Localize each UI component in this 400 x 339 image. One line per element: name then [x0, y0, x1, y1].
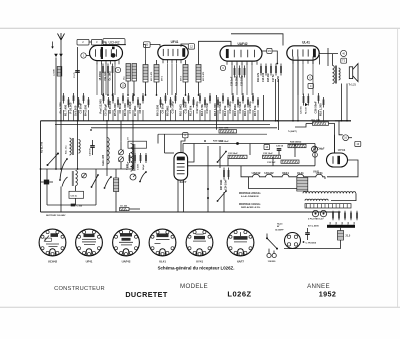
terminal 10	[120, 83, 125, 88]
wire	[46, 182, 48, 205]
capacitor C20	[277, 149, 282, 151]
capacitor C33	[305, 233, 310, 235]
svg-text:UY41: UY41	[338, 148, 346, 152]
svg-text:DEPLACER LE FIL: DEPLACER LE FIL	[241, 206, 261, 209]
wire	[219, 146, 221, 168]
wire	[237, 110, 239, 121]
junction	[145, 171, 147, 173]
capacitor C1	[75, 71, 80, 73]
wire HT bus	[41, 120, 352, 122]
wire tube pin drop	[167, 64, 169, 96]
junction	[276, 120, 278, 122]
wire	[120, 141, 122, 150]
wire	[227, 110, 229, 121]
resistor Sb	[63, 93, 65, 104]
wire	[340, 228, 342, 231]
resistor C17	[252, 93, 254, 104]
junction	[55, 168, 57, 170]
resistor R21	[219, 130, 237, 133]
wire tube pin drop	[105, 64, 107, 96]
wire heater feed	[241, 166, 249, 177]
ballast winding row 1	[303, 192, 356, 194]
resistor R18	[280, 64, 282, 76]
wire	[73, 110, 75, 121]
svg-text:St 5.000: St 5.000	[74, 105, 78, 116]
junction	[207, 197, 209, 199]
IF transformer T2 primary	[183, 65, 188, 83]
resistor R16b	[239, 66, 241, 78]
svg-text:Ld 500: Ld 500	[54, 69, 56, 76]
svg-text:R17 50k: R17 50k	[253, 105, 257, 116]
svg-text:R8 3.000: R8 3.000	[156, 104, 160, 116]
svg-text:R24 500kΩ: R24 500kΩ	[290, 141, 301, 144]
svg-text:C10 100p: C10 100p	[171, 101, 175, 113]
terminal box 10	[144, 42, 151, 48]
wire	[272, 51, 277, 64]
wire	[41, 181, 44, 183]
svg-text:SECTEUR 110-245V: SECTEUR 110-245V	[46, 214, 66, 217]
svg-text:Bob. Osc: Bob. Osc	[66, 144, 68, 154]
resistor C26	[318, 93, 320, 104]
wire tube pin drop	[297, 64, 299, 96]
wire	[103, 44, 126, 46]
wire	[127, 81, 129, 95]
svg-text:C15 100p: C15 100p	[228, 101, 232, 113]
wire	[177, 180, 179, 212]
wire	[108, 110, 110, 121]
wire	[183, 110, 185, 121]
wire	[257, 110, 259, 121]
resistor R ballast	[297, 178, 308, 192]
svg-text:R7 1MΩ: R7 1MΩ	[133, 105, 137, 116]
wire	[327, 48, 329, 66]
svg-text:Rk 150: Rk 150	[306, 106, 308, 114]
svg-text:C8 50nF: C8 50nF	[138, 102, 142, 113]
wire AF bottom	[183, 165, 315, 167]
svg-text:C 200: C 200	[77, 205, 83, 207]
wire	[217, 110, 219, 121]
tube UY41 rectifier	[327, 153, 348, 167]
ballast winding row 2	[305, 199, 328, 200]
svg-text:UAF42: UAF42	[122, 259, 131, 263]
junction	[107, 94, 109, 96]
wire	[278, 150, 280, 155]
wire to V3 grid	[199, 41, 232, 64]
svg-text:Ch. Ch6µF: Ch. Ch6µF	[313, 148, 325, 150]
svg-text:UY41: UY41	[196, 259, 203, 263]
coil L8 oscillator	[131, 144, 133, 172]
wire	[306, 123, 313, 125]
resistor R2	[112, 93, 114, 104]
wire AVC top	[143, 45, 146, 61]
svg-text:CH. 1nF: CH. 1nF	[104, 71, 107, 81]
svg-text:R1 61.700: R1 61.700	[41, 141, 44, 153]
resistor C10	[175, 93, 177, 104]
svg-text:R4 2.000: R4 2.000	[84, 104, 88, 116]
junction	[40, 168, 42, 170]
terminal box 13	[355, 141, 361, 146]
svg-text:R14 47k: R14 47k	[257, 72, 260, 82]
wire	[341, 84, 343, 121]
svg-text:CONSTRUCTEUR: CONSTRUCTEUR	[54, 286, 105, 292]
wire	[133, 81, 135, 95]
junction	[217, 200, 219, 202]
svg-text:Det. 100: Det. 100	[312, 118, 321, 121]
tube label box UCH42	[103, 39, 125, 45]
tube UF41	[158, 45, 188, 63]
resistor R14	[260, 64, 262, 76]
block C15	[69, 191, 84, 198]
tube UCH42	[90, 45, 123, 64]
junction	[112, 94, 114, 96]
terminal box 15	[267, 48, 272, 53]
oscillator coil L4	[70, 138, 72, 155]
terminal 16	[343, 135, 349, 141]
wire	[209, 110, 211, 121]
IF transformer T1 secondary	[154, 65, 159, 83]
svg-text:L026Z: L026Z	[227, 289, 251, 298]
wire tube pin drop	[246, 64, 248, 96]
svg-text:C6 50nF: C6 50nF	[118, 102, 122, 113]
wire	[86, 55, 89, 57]
svg-text:C7 100pF: C7 100pF	[128, 101, 132, 114]
junction arrow	[305, 103, 308, 106]
svg-text:UCH42: UCH42	[48, 259, 58, 263]
svg-text:M.F.1: M.F.1	[162, 75, 164, 81]
wire	[334, 135, 336, 153]
wire	[129, 208, 140, 210]
tube socket view UCH42	[39, 229, 66, 256]
wire	[185, 82, 187, 95]
resistor R8	[160, 97, 162, 108]
svg-text:C24 10nF: C24 10nF	[225, 179, 228, 190]
svg-text:M.F.1 472: M.F.1 472	[150, 71, 153, 81]
junction	[185, 94, 187, 96]
svg-text:Tr 1,21: Tr 1,21	[349, 85, 357, 87]
junction	[303, 241, 305, 243]
wire tube pin drop	[302, 64, 304, 96]
resistor R22	[313, 122, 329, 125]
wire	[216, 95, 218, 130]
wire	[47, 204, 96, 206]
svg-text:C20 50: C20 50	[276, 146, 284, 148]
wire	[120, 121, 122, 141]
svg-text:P 20.000: P 20.000	[69, 102, 73, 113]
capacitor C31	[71, 204, 76, 206]
svg-text:6AF7: 6AF7	[237, 259, 244, 263]
tube 6AF7 magic eye	[174, 153, 188, 181]
svg-text:R9 2MΩ: R9 2MΩ	[166, 105, 170, 116]
resistor C16	[242, 93, 244, 104]
junction	[276, 63, 278, 65]
trimmer CT2	[118, 157, 123, 162]
resistor Rb1	[332, 211, 334, 221]
wire rectifier heater	[327, 160, 358, 177]
svg-text:R27 1MΩ: R27 1MΩ	[220, 180, 223, 190]
mains plug pin 2	[272, 253, 276, 257]
resistor R6	[127, 97, 129, 108]
junction	[266, 237, 268, 239]
resistor R ballast M	[114, 178, 119, 192]
wire	[263, 95, 265, 121]
resistor C13	[209, 93, 211, 104]
wire	[346, 84, 348, 121]
resistor R4	[88, 97, 90, 108]
svg-text:M.F.2 472: M.F.2 472	[202, 71, 205, 81]
wire	[181, 44, 188, 47]
wire AVC bus	[91, 127, 277, 129]
resistor R11	[193, 97, 195, 108]
terminal box 2	[77, 39, 89, 45]
tube socket view UY41	[186, 229, 213, 256]
resistor R13	[217, 97, 219, 108]
terminal box T2	[341, 58, 347, 63]
svg-text:C23 5nF: C23 5nF	[267, 162, 276, 164]
chassis bar	[327, 225, 355, 228]
wire	[188, 144, 194, 163]
svg-text:MODELE: MODELE	[180, 283, 208, 290]
choke L6	[76, 171, 78, 186]
resistor R15	[237, 97, 239, 108]
resistor C15	[232, 93, 234, 104]
wire	[273, 251, 275, 254]
antenna	[58, 33, 65, 40]
tube socket view UF41	[76, 229, 103, 256]
svg-text:R14 25k: R14 25k	[223, 105, 227, 116]
wire tube pin drop	[241, 64, 243, 96]
svg-text:C17 5n: C17 5n	[272, 74, 275, 82]
wire	[182, 144, 184, 166]
svg-text:C15 2x: C15 2x	[71, 195, 79, 197]
tube socket view UAF42	[113, 229, 140, 256]
resistor R15	[265, 64, 267, 76]
wire	[102, 42, 106, 45]
junction	[66, 158, 68, 160]
wire	[156, 82, 158, 95]
wire	[132, 110, 134, 121]
resistor R27	[223, 168, 225, 180]
svg-text:UCH42: UCH42	[108, 40, 119, 44]
junction	[104, 187, 106, 189]
resistor R2 oscillator grid	[102, 64, 104, 76]
svg-text:C11 50nF: C11 50nF	[184, 101, 188, 113]
wire	[175, 110, 177, 121]
resistor R14	[227, 97, 229, 108]
junction	[225, 190, 227, 192]
junction	[102, 94, 104, 96]
terminal box 3	[92, 39, 103, 45]
output transformer primary	[333, 66, 335, 84]
svg-text:R15 2MΩ: R15 2MΩ	[233, 103, 237, 116]
svg-text:C17 200p: C17 200p	[248, 101, 252, 113]
svg-text:R6 10.000: R6 10.000	[123, 103, 127, 116]
wire tube pin drop	[236, 64, 238, 96]
wire	[223, 192, 225, 212]
dial lamp 2	[320, 210, 326, 216]
junction	[132, 120, 134, 122]
svg-text:C21 50nF: C21 50nF	[228, 153, 238, 155]
wire	[292, 248, 294, 250]
wire antenna terre lead	[55, 58, 57, 170]
wire tube pin drop	[312, 64, 314, 96]
capacitor Cp3	[140, 153, 142, 163]
svg-text:R11 50k: R11 50k	[189, 105, 193, 116]
wire	[284, 248, 341, 250]
wire	[349, 137, 353, 139]
wire	[132, 121, 134, 169]
svg-text:A: A	[184, 133, 186, 137]
junction	[217, 161, 219, 163]
svg-text:B.T.L.5000: B.T.L.5000	[308, 226, 319, 228]
wire	[307, 234, 309, 240]
resistor St	[78, 97, 80, 108]
resistor C5	[108, 97, 110, 108]
wire plate to output	[319, 53, 338, 55]
wire heater box	[249, 177, 297, 189]
wire	[122, 110, 124, 121]
terminal J	[313, 152, 318, 157]
wire	[145, 60, 147, 65]
switch S4 arc	[105, 177, 112, 188]
switch S8 arc	[140, 172, 146, 182]
wire	[145, 82, 147, 95]
svg-text:UAF42: UAF42	[237, 42, 247, 46]
wire left ground rail	[40, 121, 42, 212]
svg-text:C3 50nF: C3 50nF	[79, 102, 83, 113]
svg-text:A LA LIVRAISON: A LA LIVRAISON	[241, 195, 259, 198]
svg-text:C9 50nF: C9 50nF	[161, 102, 165, 113]
wire tube pin drop	[176, 64, 178, 96]
wire	[63, 110, 65, 121]
switch S3	[92, 175, 99, 187]
junction	[77, 120, 79, 122]
terminal strip	[305, 204, 351, 208]
svg-text:C16 50nF: C16 50nF	[238, 101, 242, 114]
wire	[75, 198, 77, 205]
resistor R3	[112, 64, 114, 76]
capacitor C21 pad	[228, 155, 247, 158]
junction	[90, 129, 92, 131]
svg-text:14.000FF: 14.000FF	[275, 228, 284, 231]
terminal 6	[115, 67, 120, 72]
wire	[137, 110, 139, 121]
resistor C11	[188, 93, 190, 104]
resistor R10	[183, 97, 185, 108]
IF transformer T1 primary	[143, 65, 148, 83]
svg-text:110/220: 110/220	[268, 261, 277, 263]
svg-text:UL41: UL41	[159, 259, 166, 263]
junction	[207, 188, 209, 190]
junction	[297, 120, 299, 122]
junction	[97, 174, 99, 176]
junction	[127, 94, 129, 96]
core	[73, 138, 74, 155]
resistor C12	[199, 93, 201, 104]
tube socket view 6AF7	[227, 229, 254, 256]
wire	[193, 110, 195, 121]
resistor Rb2	[338, 211, 340, 221]
wire	[88, 110, 90, 121]
capacitor Cp2	[134, 153, 136, 163]
svg-text:Ch. 4Ω: Ch. 4Ω	[120, 205, 127, 208]
terminal box 14	[264, 144, 270, 149]
resistor R18	[307, 94, 309, 106]
wire	[319, 55, 321, 65]
svg-text:1952: 1952	[319, 289, 337, 298]
resistor R17	[257, 97, 259, 108]
junction	[204, 140, 206, 142]
potentiometer P1	[130, 174, 136, 180]
wire	[294, 144, 296, 158]
wire	[83, 110, 85, 121]
wire	[68, 110, 70, 121]
wire	[312, 57, 314, 65]
capacitor C19	[244, 66, 246, 78]
wire tube pin drop	[231, 64, 233, 96]
wire	[199, 110, 201, 121]
coil L2 oscillator	[126, 64, 131, 82]
wire	[55, 154, 57, 170]
wire	[297, 57, 299, 121]
wire tube pin drop	[251, 64, 253, 96]
tube UAF42	[220, 46, 262, 65]
svg-text:C14 50nF: C14 50nF	[218, 101, 222, 114]
wire	[164, 134, 166, 153]
padder block	[128, 141, 147, 148]
wire	[117, 110, 119, 121]
wire	[339, 121, 343, 135]
earth arrow terminal	[52, 42, 54, 47]
resistor Rb4	[350, 211, 352, 221]
svg-text:R1 7.400: R1 7.400	[64, 104, 68, 116]
core	[72, 171, 73, 186]
junction	[198, 94, 200, 96]
wire	[103, 110, 105, 121]
IF transformer T2 secondary	[196, 65, 201, 83]
svg-text:C 3/30: C 3/30	[138, 163, 140, 170]
capacitor C18b	[234, 66, 236, 78]
heater chain wire	[249, 174, 326, 177]
wire	[120, 162, 122, 169]
junction	[91, 186, 93, 188]
svg-text:MONTAGE 220Volts: MONTAGE 220Volts	[239, 192, 261, 195]
wire	[249, 144, 251, 156]
svg-text:C16 100: C16 100	[262, 72, 265, 82]
svg-text:C25 50n: C25 50n	[301, 105, 303, 114]
wire	[242, 110, 244, 121]
terminal box 4	[308, 83, 313, 88]
wire to UY41	[329, 124, 335, 154]
svg-text:R15 1M: R15 1M	[267, 74, 270, 82]
wire	[75, 186, 77, 191]
junction	[77, 168, 79, 170]
wire	[102, 76, 104, 96]
junction	[133, 94, 135, 96]
wire	[227, 157, 229, 166]
wire	[252, 110, 254, 121]
wire tube pin drop	[101, 64, 103, 96]
loudspeaker HP	[349, 64, 358, 82]
svg-text:Gr. 1MΩ: Gr. 1MΩ	[109, 71, 112, 80]
svg-text:C13 5nF: C13 5nF	[205, 102, 209, 113]
resistor R16	[270, 64, 272, 76]
capacitor C23 pad	[281, 160, 299, 163]
wire	[314, 144, 316, 166]
output transformer secondary	[339, 68, 341, 80]
wire	[115, 169, 117, 178]
wire bus 2	[55, 124, 270, 126]
resistor C9	[165, 93, 167, 104]
